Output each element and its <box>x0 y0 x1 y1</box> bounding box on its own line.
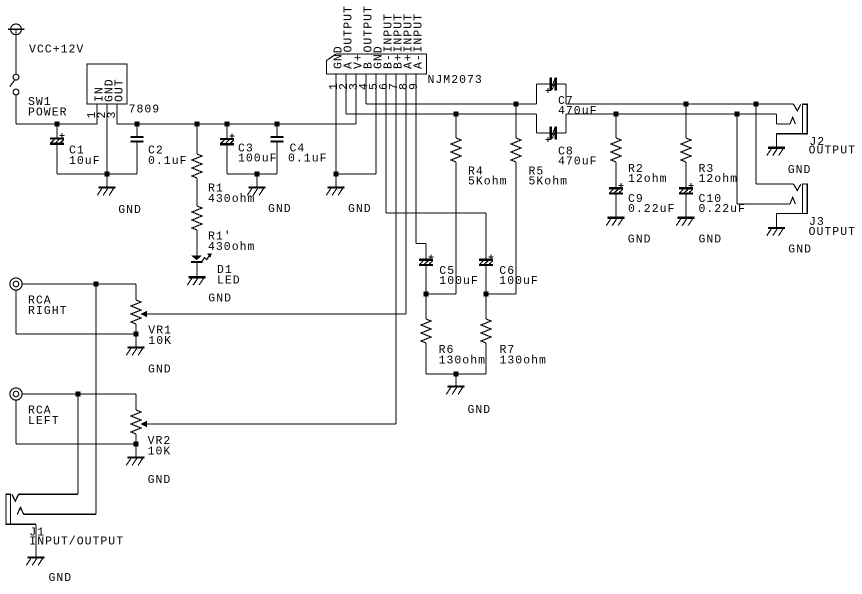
wire J3 sleeve <box>777 214 803 228</box>
label R1 430ohm <box>208 183 255 206</box>
ground IC <box>326 188 344 196</box>
ground J1 <box>26 558 44 566</box>
wire pin3 V+ to rail <box>355 74 357 124</box>
svg-text:10K: 10K <box>148 335 172 348</box>
svg-text:7809: 7809 <box>129 104 161 117</box>
wire C6 bottom lead <box>485 266 487 294</box>
wire VR1 top lead <box>135 284 137 300</box>
svg-text:12ohm: 12ohm <box>699 173 739 186</box>
ground C3 C4 <box>247 188 265 196</box>
regulator 7809 <box>87 64 127 104</box>
svg-text:OUT: OUT <box>113 78 126 102</box>
wire J1 ring <box>24 513 96 515</box>
ground C10 <box>676 218 694 226</box>
wire RCA right shell down <box>15 290 17 334</box>
wire R1 top lead <box>196 124 198 154</box>
label C10 value <box>699 193 746 216</box>
potentiometer VR2 <box>131 410 141 434</box>
svg-text:0.22uF: 0.22uF <box>628 203 675 216</box>
wire switch to 12V rail <box>15 95 17 124</box>
wire VR2 top lead <box>135 394 137 410</box>
wire ground stub C1C2 <box>106 174 108 188</box>
wire C8 jog down <box>536 114 549 133</box>
svg-text:0.22uF: 0.22uF <box>699 203 746 216</box>
wire R2 to C9 <box>615 162 617 187</box>
wire C9 to ground <box>615 195 617 218</box>
wire VR1 bottom lead <box>135 324 137 334</box>
junction left to J1 tip <box>75 391 80 396</box>
svg-text:100uF: 100uF <box>439 275 479 288</box>
junction C1 top <box>54 121 59 126</box>
resistor R1 <box>192 154 202 178</box>
junction ground node C1 C2 <box>104 171 109 176</box>
wire J2 sleeve <box>777 134 803 148</box>
svg-text:GND: GND <box>788 244 812 257</box>
wire C6 to R5 <box>486 293 516 295</box>
jack J3 <box>790 184 807 214</box>
wiper arrow VR1 <box>141 311 147 317</box>
ground D1 <box>187 277 205 285</box>
svg-text:12ohm: 12ohm <box>628 173 668 186</box>
wire C5 top lead <box>425 244 427 259</box>
label R4 5Kohm <box>468 166 508 189</box>
switch SW1 <box>10 74 19 95</box>
wire pin1 GND down <box>335 74 337 174</box>
svg-text:GND: GND <box>788 164 812 177</box>
wire R1 to R1prime <box>196 178 198 206</box>
junction right to J1 ring <box>93 281 98 286</box>
wire J3 tip across <box>756 183 794 185</box>
wire C7 jog down <box>557 84 566 104</box>
capacitor C8 <box>546 126 558 142</box>
junction R5 top <box>513 101 518 106</box>
wire pin9 jog to C5 <box>416 243 426 245</box>
junction R4 top <box>453 111 458 116</box>
wire J1 sleeve <box>11 524 37 557</box>
wire pin8 down <box>405 74 407 314</box>
connector RCA RIGHT <box>10 278 22 290</box>
connector RCA LEFT <box>10 388 22 400</box>
label RCA RIGHT <box>28 295 68 319</box>
label R5 5Kohm <box>529 166 569 189</box>
svg-text:GND: GND <box>208 293 232 306</box>
wire VR2 bottom lead <box>135 434 137 444</box>
junction R3 top <box>683 101 688 106</box>
svg-text:130ohm: 130ohm <box>439 354 486 367</box>
wire J3 tip down <box>755 104 757 184</box>
svg-text:GND: GND <box>148 474 172 487</box>
wire C5 bottom lead <box>425 266 427 294</box>
junction ground node pin1 <box>333 171 338 176</box>
svg-text:OUTPUT: OUTPUT <box>809 144 856 157</box>
wire R4 lower lead <box>455 162 457 294</box>
svg-text:0.1uF: 0.1uF <box>148 155 188 168</box>
label C1 10uF <box>69 145 101 168</box>
wire J3 ring down <box>736 114 738 204</box>
label C5 100uF <box>439 265 479 288</box>
junction VR2 ground <box>133 441 138 446</box>
svg-text:OUTPUT: OUTPUT <box>809 226 856 239</box>
svg-text:LEFT: LEFT <box>28 415 60 428</box>
resistor R7 <box>485 294 487 319</box>
wire ground stub pin1 <box>335 174 337 188</box>
ground VR2 <box>126 458 144 466</box>
wire shell to VR1 bottom <box>16 333 136 335</box>
svg-text:10uF: 10uF <box>69 155 101 168</box>
junction C2 top <box>134 121 139 126</box>
label SW1 POWER <box>28 96 68 120</box>
wire pin9 down <box>415 74 417 244</box>
label R7 130ohm <box>500 344 547 367</box>
wire 9V rail <box>117 123 356 125</box>
label R1' 430ohm <box>208 231 255 254</box>
label J2 OUTPUT <box>809 136 856 157</box>
label C8 470uF <box>558 145 598 168</box>
junction R1 top <box>194 121 199 126</box>
svg-text:POWER: POWER <box>28 107 68 120</box>
svg-text:GND: GND <box>268 203 292 216</box>
wire right channel to J1 <box>95 284 97 514</box>
resistor R6 <box>425 294 427 319</box>
wire RCA left shell down <box>15 400 17 444</box>
junction VR1 ground <box>133 331 138 336</box>
svg-text:470uF: 470uF <box>558 155 598 168</box>
label R2 12ohm <box>628 163 668 186</box>
svg-text:10K: 10K <box>148 445 172 458</box>
wire C4 bottom lead <box>276 143 278 174</box>
ground J2 <box>767 148 785 156</box>
label C2 value <box>148 145 188 168</box>
wire C3 bottom lead <box>226 145 228 174</box>
wire B-output bus left <box>366 103 536 105</box>
svg-text:GND: GND <box>348 203 372 216</box>
svg-text:NJM2073: NJM2073 <box>428 74 483 87</box>
wire 7809 pin3 stub <box>116 104 118 125</box>
LED D1 <box>191 253 212 263</box>
capacitor C4 <box>270 136 283 138</box>
label C4 value <box>288 142 328 165</box>
pin numbers NJM2073 <box>328 82 421 90</box>
wire ground stub VR2 <box>135 444 137 458</box>
wire R5 lower lead <box>515 162 517 294</box>
wire pin5 GND down <box>375 74 377 174</box>
wire A-output bus left <box>346 113 536 115</box>
svg-text:100uF: 100uF <box>499 275 539 288</box>
wire D1 to ground <box>196 263 198 277</box>
label D1 LED <box>217 264 241 287</box>
resistor R3 <box>685 104 687 138</box>
label VR1 10K <box>148 325 172 349</box>
wire C10 to ground <box>685 195 687 218</box>
svg-text:GND: GND <box>148 363 172 376</box>
wire 7809 pin2 GND down <box>106 104 108 174</box>
wire RCA left tip <box>22 393 136 395</box>
capacitor C6 <box>479 254 493 266</box>
svg-text:5Kohm: 5Kohm <box>468 175 508 188</box>
capacitor C5 <box>419 254 433 266</box>
wire J1 tip <box>19 493 78 495</box>
capacitor C9 <box>609 183 623 195</box>
capacitor C7 <box>546 77 558 93</box>
junction J3 tip branch <box>753 101 758 106</box>
wire C2 to ground node <box>107 173 137 175</box>
svg-text:OUTPUT: OUTPUT <box>362 5 375 52</box>
svg-text:5Kohm: 5Kohm <box>529 175 569 188</box>
svg-text:GND: GND <box>699 234 723 247</box>
svg-text:INPUT/OUTPUT: INPUT/OUTPUT <box>29 535 124 548</box>
wire C1 top lead <box>56 124 58 138</box>
svg-text:130ohm: 130ohm <box>500 354 547 367</box>
junction C3 top <box>224 121 229 126</box>
junction R2 top <box>613 111 618 116</box>
ground VR1 <box>126 348 144 356</box>
wire 12V rail left segment <box>16 123 97 125</box>
jack J2 <box>790 104 807 134</box>
capacitor C3 <box>220 134 234 146</box>
wire pin7 down <box>395 74 397 424</box>
label C3 100uF <box>238 142 278 165</box>
ground C9 <box>606 218 624 226</box>
wire C8 jog up <box>557 114 566 133</box>
wiper arrow VR2 <box>141 421 147 427</box>
wire shell to VR2 bottom <box>16 443 136 445</box>
wire pin2 A-output down <box>345 74 347 114</box>
label J3 OUTPUT <box>809 216 856 239</box>
wire B-output bus right <box>566 103 794 105</box>
junction ground node R6 R7 <box>453 371 458 376</box>
svg-text:0.1uF: 0.1uF <box>288 153 328 166</box>
wire left channel to J1 <box>77 394 79 494</box>
svg-text:A-: A- <box>412 53 425 69</box>
svg-text:LED: LED <box>217 275 241 288</box>
label R3 12ohm <box>699 163 739 186</box>
svg-text:GND: GND <box>468 404 492 417</box>
wire C6 top lead <box>485 213 487 259</box>
ground J3 <box>767 228 785 236</box>
wire ground stub VR1 <box>135 334 137 348</box>
jack J1 <box>6 494 24 524</box>
label J1 INPUT/OUTPUT <box>29 526 124 548</box>
capacitor C2 <box>130 136 143 138</box>
wire C3 C4 ground link <box>227 173 277 175</box>
wire J3 ring across <box>737 203 790 205</box>
wire C7 jog up <box>536 84 549 104</box>
wire C1 bottom lead <box>56 145 58 174</box>
svg-text:GND: GND <box>49 572 73 585</box>
wire C5 to R4 <box>426 293 456 295</box>
wire pin7 to VR2 wiper <box>146 423 396 425</box>
wire C4 top lead <box>276 124 278 136</box>
svg-text:9: 9 <box>408 82 421 90</box>
resistor R4 <box>455 114 457 138</box>
wire ground stub R6R7 <box>455 374 457 387</box>
wire R6 bottom <box>425 343 427 374</box>
wire pin5 to pin1 ground link <box>336 173 376 175</box>
svg-text:100uF: 100uF <box>238 153 278 166</box>
svg-text:INPUT: INPUT <box>412 13 425 53</box>
label C6 100uF <box>499 265 539 288</box>
pin numbers 7809 <box>86 111 119 119</box>
wire pin6 to C6 <box>386 212 486 214</box>
op-amp U1 NJM2073 <box>327 5 427 74</box>
wire pin6 down <box>385 74 387 213</box>
junction C4 top <box>274 121 279 126</box>
label RCA LEFT <box>28 405 60 429</box>
junction J3 ring branch <box>734 111 739 116</box>
junction ground node C3 C4 <box>254 171 259 176</box>
resistor R2 <box>615 114 617 138</box>
svg-text:430ohm: 430ohm <box>208 193 255 206</box>
potentiometer VR1 <box>131 300 141 324</box>
svg-text:GND: GND <box>628 234 652 247</box>
wire VCC to switch <box>15 35 17 75</box>
capacitor C10 <box>679 183 693 195</box>
junction C5 bottom <box>423 291 428 296</box>
svg-text:OUTPUT: OUTPUT <box>342 5 355 52</box>
wire A-output bus right <box>566 113 777 115</box>
ground R6 R7 <box>446 387 464 395</box>
wire C2 top lead <box>136 124 138 136</box>
wire C1 to ground node <box>57 173 107 175</box>
power symbol VCC <box>8 24 25 35</box>
wire RCA right tip <box>22 283 136 285</box>
label C9 value <box>628 193 675 216</box>
wire C2 bottom lead <box>136 143 138 174</box>
label C7 470uF <box>558 95 598 118</box>
capacitor C1 <box>50 133 64 145</box>
wire R1prime to D1 <box>196 230 198 255</box>
resistor R5 <box>515 104 517 138</box>
label VR2 10K <box>148 435 172 458</box>
svg-text:VCC+12V: VCC+12V <box>29 43 84 56</box>
wire 7809 pin1 stub <box>96 104 98 125</box>
ground C1 C2 <box>97 188 115 196</box>
label R6 130ohm <box>439 344 486 367</box>
wire ground stub C3C4 <box>256 174 258 188</box>
svg-text:430ohm: 430ohm <box>208 241 255 254</box>
svg-text:RIGHT: RIGHT <box>28 305 68 318</box>
wire R3 to C10 <box>685 162 687 187</box>
wire pin8 to VR1 wiper <box>146 313 406 315</box>
resistor R1' <box>192 206 202 230</box>
wire C3 top lead <box>226 124 228 138</box>
wire J2 ring jog <box>777 114 791 124</box>
svg-text:GND: GND <box>118 204 142 217</box>
wire pin4 B-output down <box>365 74 367 104</box>
wire R7 bottom <box>485 343 487 374</box>
svg-text:470uF: 470uF <box>558 105 598 118</box>
junction C6 bottom <box>483 291 488 296</box>
